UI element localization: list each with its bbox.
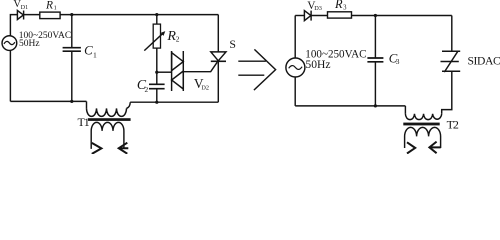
node junction C3 bottom [374,104,377,107]
resistor R3 [328,12,352,18]
node junction C2 top [155,71,158,74]
wire top-left corner right circuit [295,15,304,17]
big arrow between circuits [238,61,266,75]
svg-text:C: C [84,44,93,58]
capacitor C2 [149,84,165,88]
diac VD2 [172,51,184,91]
svg-text:50Hz: 50Hz [19,39,40,49]
wire SIDAC top lead [451,16,453,52]
electrode arrow T2 left [407,142,415,153]
transformer T1 primary lead right [127,102,131,108]
svg-text:D1: D1 [21,5,28,11]
wire C2 upper [156,72,158,84]
thyristor S [211,52,226,61]
node junction C1 top [70,13,73,16]
electrode arrow T2 right [429,142,440,154]
transformer T1 core [88,118,131,121]
electrode arrow T1 left [92,143,102,154]
svg-text:T2: T2 [447,117,459,131]
svg-text:S: S [229,37,236,51]
transformer T2 primary lead left [404,106,406,114]
node junction C1 bottom [70,100,73,103]
capacitor C1 [63,48,81,52]
node junction R2 top [155,13,158,16]
wire bottom middle rail [130,101,218,103]
transformer T1 secondary winding [91,122,124,149]
wire top rail R1 to thyristor [60,14,218,16]
wire thyristor top lead [217,15,219,52]
wire C2 lower [156,89,158,103]
wire diode to R3 [311,15,327,17]
svg-text:1: 1 [93,50,97,59]
wire R2 to node [156,48,158,72]
svg-text:T1: T1 [78,115,90,129]
AC source G1 [2,36,17,51]
wire thyristor bottom lead [217,61,219,102]
wire node to diac [157,71,172,73]
diode VD1 [17,11,23,20]
wire left branch right circuit upper [294,16,296,59]
node junction C3 top [374,14,377,17]
transformer T2 primary winding [405,114,441,120]
svg-text:2: 2 [145,85,149,94]
wire bottom-left rail [10,100,86,102]
wire bottom rail right circuit [295,105,405,107]
node junction C2 bottom [155,101,158,104]
svg-text:R: R [334,0,343,11]
wire SIDAC bottom lead [442,71,452,114]
transformer T1 primary winding [87,108,127,116]
wire C3 upper [374,16,376,58]
wire left branch right circuit lower [294,77,296,106]
wire R2 branch upper [156,15,158,25]
wire C3 lower [374,62,376,106]
diode VD3 [304,11,311,21]
wire C1 branch upper [71,15,73,48]
wire diac to gate [183,62,217,71]
capacitor C3 [367,58,383,62]
wire left vertical below source [9,50,11,101]
svg-text:D3: D3 [314,5,322,12]
resistor R1 [40,12,60,19]
SIDAC symbol [441,51,461,71]
wire top rail right circuit [352,15,452,17]
wire top-left vertical (AC to top rail) [10,15,17,36]
svg-text:R: R [45,0,53,11]
electrode arrow T1 right [119,143,129,154]
wire diode to R1 [24,14,40,16]
svg-text:3: 3 [343,4,347,11]
arrow of rheostat R2 [144,33,163,51]
AC source G2 [286,58,305,77]
svg-text:SIDAC: SIDAC [468,55,500,68]
svg-text:2: 2 [176,34,180,43]
transformer T2 secondary winding [405,127,441,148]
svg-text:50Hz: 50Hz [305,58,330,71]
resistor R2 (rheostat) [153,24,160,48]
transformer T2 core [403,123,439,126]
svg-text:D2: D2 [201,85,209,92]
svg-text:1: 1 [54,5,57,12]
transformer T1 primary lead left [86,101,88,108]
wire C1 branch lower [71,52,73,102]
svg-text:3: 3 [396,57,400,66]
